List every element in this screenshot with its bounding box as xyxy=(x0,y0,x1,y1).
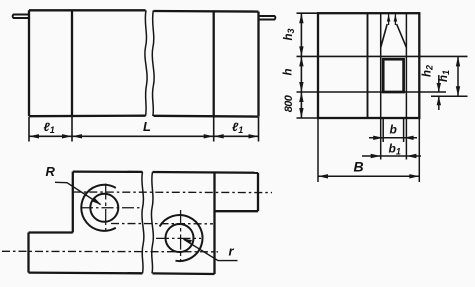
section level line cavity bottom (y=92) xyxy=(318,91,446,93)
tick y=92 xyxy=(297,91,319,93)
extension line x=258.5 xyxy=(258,117,260,142)
h2 upper arrowhead xyxy=(437,83,441,92)
front view top edge (right of break) xyxy=(154,10,259,13)
slot outer wall right xyxy=(405,13,407,159)
front view bottom edge (right of break) xyxy=(154,115,259,118)
leader r arrowhead xyxy=(182,238,192,244)
plan break line 1 (wavy) xyxy=(142,172,144,273)
circle 1 horizontal centerline xyxy=(81,207,140,209)
front view break line 1 (wavy) xyxy=(145,10,147,116)
leader line for R xyxy=(55,182,101,204)
svg-text:B: B xyxy=(354,159,364,175)
plan top edge (left of break) xyxy=(73,170,143,173)
circle 2 vertical centerline xyxy=(180,210,182,262)
slot neck wall left xyxy=(388,13,390,25)
h2 upper arrow line xyxy=(438,75,440,92)
b arrow left (tip right) xyxy=(373,136,383,140)
section level line h (y=56.4) xyxy=(318,55,468,57)
plan left protrusion top edge xyxy=(29,231,73,233)
extension line x=29 xyxy=(28,117,30,142)
svg-text:L: L xyxy=(143,119,151,134)
circle 2 horizontal centerline xyxy=(156,237,201,239)
svg-text:b: b xyxy=(390,123,397,137)
arrow l1 right / L left xyxy=(62,134,72,138)
front view break line 2 (wavy) xyxy=(152,11,154,117)
h2 lower arrow line xyxy=(438,96,440,110)
leader line for r xyxy=(184,239,238,260)
B dimension line xyxy=(318,175,419,177)
svg-text:h: h xyxy=(283,68,295,75)
B extension line right xyxy=(418,119,420,183)
arrow h3 bottom / h top xyxy=(299,46,303,56)
h1 top arrowhead xyxy=(456,56,460,66)
b1 dimension line xyxy=(362,155,421,157)
b dimension line xyxy=(369,137,417,139)
front view joint line left xyxy=(71,10,73,116)
b1 arrow right (tip left) xyxy=(406,154,416,158)
plan break line 2 (wavy) xyxy=(151,172,153,273)
arrow 800 bottom xyxy=(299,108,303,118)
dashed line mid level xyxy=(111,223,213,225)
b arrow right (tip left) xyxy=(404,136,414,140)
neck arrowhead right xyxy=(394,15,398,22)
funnel slant right xyxy=(397,24,407,48)
section outer rectangle xyxy=(318,13,419,118)
plan main right edge xyxy=(213,172,215,274)
slot neck wall right xyxy=(394,13,396,25)
plan main left edge xyxy=(72,172,74,233)
arrow l1 left xyxy=(29,134,39,138)
h1 bottom arrowhead xyxy=(456,86,460,96)
section short level line (y=96.2) xyxy=(431,95,468,97)
section inner vertical line xyxy=(367,13,369,118)
plan right protrusion bottom edge xyxy=(215,210,259,212)
dashed main axis line xyxy=(2,250,218,253)
plan right protrusion right edge xyxy=(257,173,259,211)
front view right edge xyxy=(257,12,259,117)
front view bottom edge (left of break) xyxy=(29,115,146,118)
cavity rectangle xyxy=(383,59,403,92)
front view left edge xyxy=(28,10,30,116)
hole circle 1 xyxy=(90,194,118,222)
dashed axis line through right protrusion xyxy=(73,191,272,194)
plan top edge (right of break) xyxy=(153,171,259,174)
circle 1 vertical centerline xyxy=(105,184,107,232)
cavity wall extension left (b) xyxy=(382,119,384,143)
plan left protrusion left edge xyxy=(27,233,29,273)
tick y=56.4 xyxy=(297,55,319,57)
B arrow left xyxy=(318,174,328,178)
h2 lower arrowhead xyxy=(437,96,441,105)
extension line x=213.7 xyxy=(213,117,215,142)
svg-text:800: 800 xyxy=(283,94,295,112)
recess arc 2 around circle 2 xyxy=(160,215,203,261)
dimension line l1-L-l1 xyxy=(29,135,259,137)
tick bottom y=118 xyxy=(297,117,319,119)
arrow L right / l1b left xyxy=(204,134,214,138)
extension line x=72 xyxy=(71,117,73,142)
front view top edge (left of break) xyxy=(29,9,146,11)
b1 arrow left (tip right) xyxy=(371,154,381,158)
svg-text:R: R xyxy=(46,164,56,179)
recess arc 1 around circle 1 xyxy=(81,185,116,231)
arrow l1b right xyxy=(249,134,259,138)
h1 dimension line xyxy=(457,56,459,96)
left dimension chain line xyxy=(300,13,302,118)
B extension line left xyxy=(317,119,319,183)
lifting loop right xyxy=(259,16,276,20)
arrow h bottom / 800 top xyxy=(299,82,303,92)
cavity wall extension right (b) xyxy=(403,119,405,143)
lifting loop left xyxy=(13,15,29,19)
neck arrowhead left xyxy=(387,15,391,22)
plan bottom edge (right of break) xyxy=(153,272,215,275)
arrow h3 top xyxy=(299,13,303,23)
front view joint line right xyxy=(213,11,215,116)
B arrow right xyxy=(409,174,419,178)
leader R arrowhead xyxy=(92,198,102,205)
slot outer wall left xyxy=(380,13,382,159)
hole circle 2 xyxy=(166,224,194,252)
funnel slant left xyxy=(381,24,388,48)
tick top y=13.2 xyxy=(297,12,319,14)
plan bottom edge (left of break) xyxy=(29,271,143,274)
